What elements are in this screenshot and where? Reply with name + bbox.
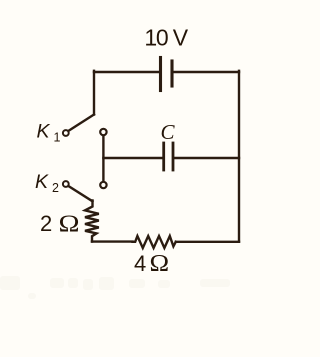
switch K2 left contact [63,181,69,187]
wire: battery to top-right corner [172,71,239,73]
svg-text:2: 2 [40,211,52,236]
svg-text:C: C [161,120,176,144]
label 4 ohm [134,251,169,277]
wire: vertical between K1 and K2 contacts [102,136,104,181]
svg-text:10 V: 10 V [144,25,188,51]
wire: capacitor C to right side [174,157,240,159]
switch K1 left contact [63,130,69,136]
switch K1 right contact [100,129,106,135]
resistor R1 2 ohm (vertical zigzag) [85,201,99,242]
resistor R2 4 ohm (horizontal zigzag) [133,236,176,248]
capacitor C left plate [162,143,165,170]
svg-text:4: 4 [134,251,146,276]
wire: left vertical from top corner [93,71,95,115]
wire: top-left horizontal (corner to battery) [94,71,160,73]
wire: bottom left segment [92,240,133,242]
wire: branch to capacitor C [103,157,163,159]
svg-text:Ω: Ω [59,210,80,237]
battery V1 left plate (long) [159,58,162,91]
wire: right vertical side [238,71,240,242]
label 2 ohm [40,210,80,237]
wire: bottom right segment [176,241,239,243]
svg-text:Ω: Ω [150,251,170,277]
switch K2 right contact [100,182,106,188]
switch K1 blade (open) [69,115,94,131]
capacitor C right plate [172,143,175,170]
battery V1 right plate (short) [170,61,173,86]
switch K2 blade (open) [68,186,92,201]
